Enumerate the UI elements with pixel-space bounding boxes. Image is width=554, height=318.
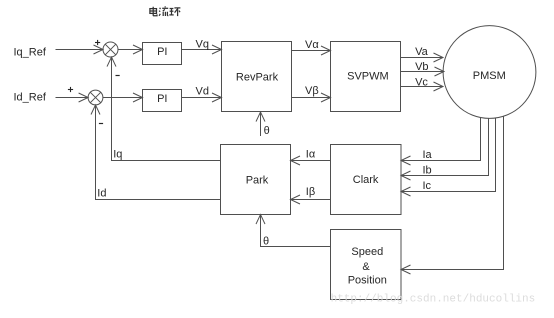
svg-text:Ib: Ib: [423, 165, 432, 177]
svg-text:Vb: Vb: [415, 61, 428, 73]
sign minus at J2: [99, 123, 103, 125]
svg-text:PI: PI: [157, 93, 167, 105]
svg-text:Va: Va: [415, 46, 429, 58]
block PI2: [143, 90, 182, 112]
wire PMSM to Clark (Ib): [401, 118, 489, 180]
svg-text:θ: θ: [264, 125, 270, 137]
svg-text:Iβ: Iβ: [306, 186, 315, 198]
wire PMSM to Clark (Ic): [401, 118, 496, 196]
wire Clark to Park (Ibeta): [291, 195, 331, 204]
svg-text:Vα: Vα: [305, 39, 319, 51]
svg-text:Iq: Iq: [113, 149, 122, 161]
wire RevPark to SVPWM (Vbeta): [292, 93, 331, 102]
svg-text:RevPark: RevPark: [236, 72, 279, 84]
svg-text:Iq_Ref: Iq_Ref: [14, 46, 47, 58]
wire PMSM to Clark (Ia): [401, 118, 481, 165]
svg-text:Iα: Iα: [306, 149, 316, 161]
svg-text:Vβ: Vβ: [305, 85, 319, 97]
svg-text:Speed: Speed: [351, 246, 383, 258]
svg-text:Vq: Vq: [196, 38, 209, 50]
summing junction J1: [103, 42, 118, 57]
svg-text:Ic: Ic: [423, 180, 432, 192]
svg-text:PI: PI: [157, 46, 167, 58]
motor PMSM circle: [443, 26, 536, 119]
wire Speed&Position theta to Park: [256, 215, 331, 247]
wire SVPWM to PMSM (Va): [401, 53, 444, 62]
wire theta arrow into RevPark: [256, 112, 265, 136]
svg-text:&: &: [362, 261, 370, 273]
svg-text:Id_Ref: Id_Ref: [14, 92, 47, 104]
wire Id_Ref to J2: [56, 93, 89, 102]
sign plus at J1: [95, 40, 100, 45]
block Park: [221, 145, 291, 215]
wire PI2 to RevPark (Vd): [182, 93, 222, 102]
svg-text:Ia: Ia: [423, 149, 433, 161]
block Speed & Position: [331, 230, 402, 300]
wire J1 to PI1: [118, 45, 143, 54]
svg-text:θ: θ: [263, 235, 269, 247]
wire RevPark to SVPWM (Valpha): [292, 46, 331, 55]
svg-text:Clark: Clark: [353, 174, 379, 186]
svg-text:Park: Park: [246, 174, 269, 186]
wire PI1 to RevPark (Vq): [182, 45, 222, 54]
block RevPark: [222, 42, 292, 112]
block PI1: [143, 43, 182, 65]
wire PMSM to Speed&Position: [401, 116, 504, 274]
svg-text:Vc: Vc: [415, 76, 428, 88]
svg-text:Id: Id: [97, 188, 106, 200]
svg-text:http://blog.csdn.net/hducollin: http://blog.csdn.net/hducollins: [331, 294, 536, 306]
sign plus at J2: [68, 87, 73, 92]
summing junction J2: [88, 90, 103, 105]
wire Iq_Ref to J1: [56, 45, 104, 54]
wire Clark to Park (Ialpha): [291, 156, 331, 165]
wire Park feedback Id to J2: [91, 105, 221, 200]
svg-text:PMSM: PMSM: [473, 70, 506, 82]
wire Park feedback Iq to J1: [107, 57, 221, 161]
svg-text:Vd: Vd: [196, 86, 209, 98]
wire SVPWM to PMSM (Vc): [401, 82, 444, 91]
wire SVPWM to PMSM (Vb): [401, 67, 445, 76]
svg-text:SVPWM: SVPWM: [347, 71, 389, 83]
block SVPWM: [331, 42, 401, 112]
title 电流环 (drawn strokes): [150, 6, 181, 16]
block Clark: [331, 145, 402, 215]
wire J2 to PI2: [103, 93, 143, 102]
sign minus at J1: [116, 75, 120, 77]
svg-text:Position: Position: [348, 274, 387, 286]
